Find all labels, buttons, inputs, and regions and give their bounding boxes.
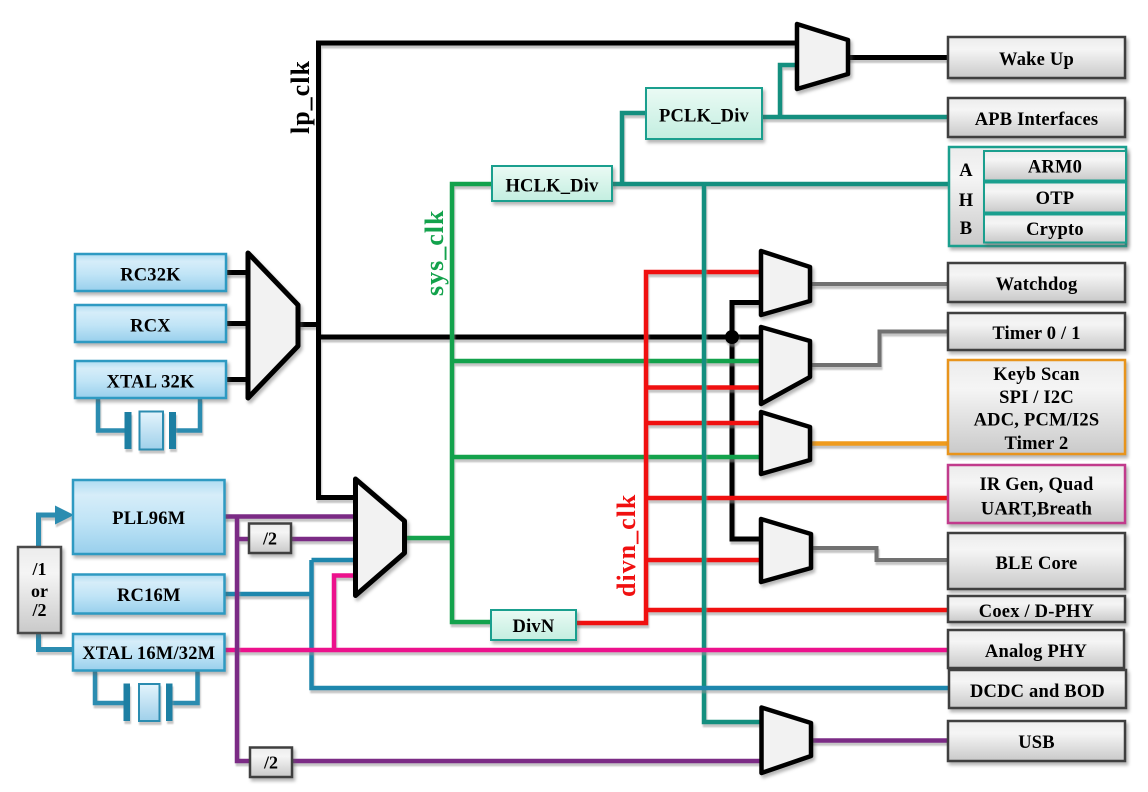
svg-text:APB Interfaces: APB Interfaces <box>975 110 1099 130</box>
svg-text:SPI / I2C: SPI / I2C <box>999 388 1074 408</box>
block APB Interfaces <box>948 98 1125 137</box>
svg-text:Analog PHY: Analog PHY <box>985 642 1088 662</box>
svg-text:PCLK_Div: PCLK_Div <box>659 107 750 127</box>
block HCLK_Div <box>492 166 612 201</box>
svg-text:Wake Up: Wake Up <box>999 50 1074 70</box>
block Keyb Scan group <box>948 360 1125 454</box>
svg-text:XTAL 32K: XTAL 32K <box>106 373 195 393</box>
svg-text:or: or <box>31 581 48 601</box>
mux M3 wakeup <box>797 24 848 89</box>
svg-text:RCX: RCX <box>130 317 171 337</box>
block Coex / D-PHY <box>948 596 1125 622</box>
wire blue divider select bottom <box>39 633 74 650</box>
wire lp_clk black net <box>298 41 797 540</box>
mux M1 sources 32K <box>248 253 298 398</box>
svg-text:ARM0: ARM0 <box>1028 158 1082 178</box>
block Analog PHY <box>948 630 1124 668</box>
svg-text:Watchdog: Watchdog <box>996 275 1078 295</box>
crystal X2 plates and body <box>124 684 173 722</box>
svg-text:Crypto: Crypto <box>1026 220 1084 240</box>
wire sys_clk green net <box>405 184 762 622</box>
block Crypto <box>984 215 1126 243</box>
wire Wake Up output <box>848 55 948 60</box>
block IR Gen <box>948 465 1125 523</box>
block USB <box>948 721 1125 761</box>
svg-text:divn_clk: divn_clk <box>612 494 641 597</box>
svg-text:XTAL 16M/32M: XTAL 16M/32M <box>82 644 215 664</box>
wire blue divider select top with arrow <box>39 515 59 547</box>
block XTAL 32K <box>75 361 226 398</box>
svg-text:PLL96M: PLL96M <box>112 509 185 529</box>
mux M6 keyb <box>761 412 810 474</box>
block divider /2 bottom <box>250 748 292 778</box>
block XTAL 16M/32M <box>73 634 225 671</box>
svg-text:HCLK_Div: HCLK_Div <box>505 177 599 197</box>
block RCX <box>75 305 226 342</box>
svg-text:Timer 2: Timer 2 <box>1005 434 1069 454</box>
crystal X1 plates and body <box>125 412 177 450</box>
wire divn_clk red net <box>576 272 948 623</box>
arrowhead to PLL96M <box>55 506 74 525</box>
svg-text:/2: /2 <box>31 600 46 620</box>
mux M5 timer <box>761 327 810 404</box>
mux M2 sources 16M <box>356 479 405 596</box>
svg-text:DCDC and BOD: DCDC and BOD <box>970 682 1105 702</box>
wire gray Timer <box>810 332 948 366</box>
block Timer 0 / 1 <box>948 313 1125 350</box>
block RC32K <box>75 254 226 291</box>
block ARM0 <box>984 151 1126 181</box>
wire blue rc16m net <box>225 560 951 688</box>
block AHB group <box>949 147 1126 246</box>
block divider /2 top <box>249 524 291 554</box>
wire orange keyb output <box>810 441 948 446</box>
svg-text:/1: /1 <box>31 559 46 579</box>
wire purple pll net <box>225 517 949 762</box>
wire mux1 input stubs <box>226 273 250 380</box>
svg-text:UART,Breath: UART,Breath <box>981 500 1093 520</box>
svg-text:OTP: OTP <box>1036 189 1075 209</box>
svg-text:RC32K: RC32K <box>120 266 181 286</box>
svg-text:lp_clk: lp_clk <box>286 60 315 134</box>
svg-text:Coex / D-PHY: Coex / D-PHY <box>979 602 1095 622</box>
block Watchdog <box>948 263 1125 302</box>
junction dot lp_clk <box>725 330 739 344</box>
crystal X1 wires <box>98 398 200 431</box>
crystal X2 wires <box>95 670 198 703</box>
svg-text:H: H <box>959 191 974 211</box>
svg-text:B: B <box>960 219 973 239</box>
svg-text:IR Gen, Quad: IR Gen, Quad <box>980 475 1094 495</box>
block Wake Up <box>948 37 1125 78</box>
wire gray Watchdog <box>810 282 948 286</box>
svg-text:A: A <box>959 161 973 181</box>
wire gray BLE <box>811 548 948 560</box>
svg-text:DivN: DivN <box>513 617 555 637</box>
svg-text:RC16M: RC16M <box>117 586 181 606</box>
wire magenta xtal16 net <box>225 576 949 651</box>
svg-text:sys_clk: sys_clk <box>420 210 449 296</box>
svg-text:Keyb Scan: Keyb Scan <box>993 365 1080 385</box>
block PLL96M <box>73 480 225 554</box>
mux M8 usb <box>762 708 812 774</box>
block divider select /1 or /2 <box>18 547 61 633</box>
svg-text:/2: /2 <box>262 529 277 549</box>
svg-text:/2: /2 <box>263 753 278 773</box>
svg-text:ADC, PCM/I2S: ADC, PCM/I2S <box>974 411 1100 431</box>
wire teal hclk net <box>612 65 950 722</box>
block OTP <box>984 183 1126 213</box>
block RC16M <box>73 575 225 614</box>
svg-text:BLE Core: BLE Core <box>996 554 1078 574</box>
block DCDC and BOD <box>949 670 1126 708</box>
block PCLK_Div <box>646 88 762 139</box>
svg-text:Timer 0 / 1: Timer 0 / 1 <box>992 324 1080 344</box>
block BLE Core <box>948 533 1125 589</box>
svg-text:USB: USB <box>1018 733 1055 753</box>
mux M7 ble <box>761 519 811 582</box>
mux M4 watchdog <box>761 251 810 315</box>
block DivN <box>491 610 576 640</box>
